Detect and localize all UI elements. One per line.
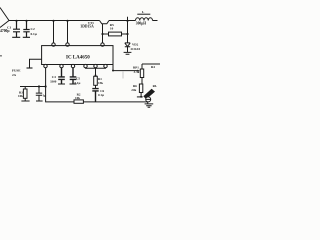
wire RP1 wiper from IC right	[113, 65, 138, 71]
transistor arrow blob bottom right	[143, 89, 155, 99]
svg-text:RL: RL	[153, 84, 157, 88]
wire IC top pin stub 2	[67, 21, 69, 43]
wire top rail right	[109, 20, 136, 22]
ground under C5	[70, 83, 77, 85]
ground under C4	[58, 83, 65, 85]
capacitor C1 4700u	[12, 21, 20, 38]
resistor R2 (on bottom rail)	[74, 100, 83, 103]
transistor VT1 (dip in rail)	[100, 21, 110, 24]
resistor R5	[103, 33, 109, 35]
svg-text:R4: R4	[151, 65, 155, 69]
junction dots	[15, 20, 142, 98]
IC U1 box	[42, 46, 113, 65]
resistor R1	[94, 76, 98, 85]
svg-text:300μH: 300μH	[136, 22, 146, 26]
capacitor C2 0.1u	[23, 21, 30, 38]
svg-text:n: n	[0, 54, 2, 58]
ground bottom right	[145, 104, 154, 107]
svg-text:10k: 10k	[18, 94, 23, 98]
pin circle	[66, 43, 69, 46]
wire output top right	[142, 63, 160, 65]
bridge rectifier (partial diamond, left edge)	[0, 8, 9, 28]
svg-text:0.1μ: 0.1μ	[75, 81, 81, 85]
pin circle	[52, 43, 55, 46]
svg-text:3DD15A: 3DD15A	[81, 24, 95, 28]
svg-text:10: 10	[110, 26, 114, 30]
svg-text:2A: 2A	[12, 73, 17, 77]
wire VD2 branch vertical	[127, 21, 129, 43]
capacitor C6 0.1u	[92, 89, 98, 102]
wiper arrowhead	[137, 70, 140, 72]
terminal circle bottom right	[147, 96, 149, 104]
svg-text:10k: 10k	[75, 96, 80, 100]
inductor L 300uH	[136, 18, 153, 21]
IC bottom pin circles	[44, 64, 47, 67]
ground under R3	[21, 100, 29, 102]
wire top rail left	[9, 20, 100, 22]
svg-text:IC LA4650: IC LA4650	[66, 55, 90, 60]
stub bar under R6	[137, 96, 143, 98]
svg-text:15k: 15k	[98, 81, 103, 85]
capacitor C3 1u	[36, 87, 42, 101]
svg-text:0.1μ: 0.1μ	[98, 93, 104, 97]
svg-text:3300: 3300	[50, 80, 57, 84]
svg-text:FUSE: FUSE	[12, 68, 21, 72]
resistor R6	[139, 84, 142, 93]
ground under C3	[36, 100, 43, 102]
fuse terminal bar	[27, 67, 33, 69]
svg-text:24k: 24k	[131, 88, 136, 92]
capacitor C5 0.1u	[70, 68, 77, 84]
capacitor C4 3300	[58, 68, 65, 84]
svg-text:3.3k: 3.3k	[134, 70, 140, 74]
wire IC top pin stub 1	[53, 21, 55, 43]
wire left bias rail	[20, 86, 46, 88]
wire fuse branch from IC left	[30, 59, 42, 67]
wire long left vertical from pin 1	[46, 68, 148, 102]
wire stub above junction	[127, 17, 129, 21]
wire rail after inductor	[153, 20, 158, 22]
svg-text:VD2: VD2	[132, 42, 139, 46]
pin circle	[101, 43, 104, 46]
svg-text:C5: C5	[76, 76, 80, 80]
svg-text:C2: C2	[31, 27, 35, 31]
potentiometer RP1	[141, 64, 143, 69]
svg-text:1μ: 1μ	[43, 93, 47, 97]
svg-text:2CK10: 2CK10	[131, 47, 141, 51]
wire pin link	[86, 67, 106, 69]
resistor R3	[24, 87, 26, 90]
scan artifact vertical	[122, 72, 124, 79]
diode VD2 2CK10	[125, 43, 130, 47]
wire VT1 base down	[102, 24, 104, 43]
svg-text:4700μ: 4700μ	[0, 29, 10, 33]
ground under VD2	[124, 52, 132, 54]
wire R1 stem	[95, 68, 97, 77]
svg-text:0.1μ: 0.1μ	[31, 32, 37, 36]
svg-text:C4: C4	[52, 75, 56, 79]
